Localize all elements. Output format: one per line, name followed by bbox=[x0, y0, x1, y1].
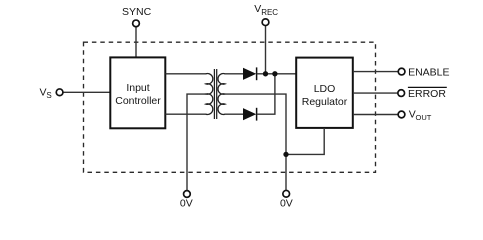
wire VREC drop bbox=[265, 25, 267, 74]
wire primary bottom bbox=[166, 113, 207, 115]
wire D2 cathode up to rail bbox=[257, 74, 275, 114]
transformer T1 primary winding bbox=[206, 74, 213, 115]
wire secondary top to diode D1 bbox=[224, 73, 243, 75]
transformer T1 secondary winding bbox=[218, 74, 225, 115]
diode D2 bbox=[243, 108, 257, 121]
svg-text:0V: 0V bbox=[280, 197, 293, 209]
svg-text:REC: REC bbox=[261, 8, 278, 17]
label Vs bbox=[40, 86, 52, 100]
wire primary top bbox=[166, 73, 207, 75]
label VOUT bbox=[409, 108, 432, 121]
svg-text:Controller: Controller bbox=[115, 95, 161, 107]
svg-text:SYNC: SYNC bbox=[122, 6, 152, 18]
wire ERROR bbox=[353, 92, 398, 94]
diode D1 bbox=[243, 67, 257, 80]
wire primary center tap to 0V bbox=[187, 94, 206, 191]
block U2 LDO Regulator bbox=[296, 58, 353, 128]
svg-text:Regulator: Regulator bbox=[302, 96, 348, 108]
label VREC bbox=[254, 3, 278, 17]
svg-text:V: V bbox=[254, 3, 261, 15]
wire LDO ground return bbox=[286, 128, 324, 154]
transformer T1 core bbox=[214, 69, 216, 119]
svg-text:LDO: LDO bbox=[314, 83, 336, 95]
terminal ENABLE bbox=[398, 68, 405, 75]
svg-text:S: S bbox=[46, 91, 51, 100]
wire ENABLE bbox=[353, 71, 399, 73]
junction rail/D2 bbox=[272, 71, 277, 76]
svg-text:0V: 0V bbox=[180, 197, 193, 209]
wire rectified rail to LDO bbox=[257, 73, 296, 75]
terminal VREC bbox=[262, 19, 269, 26]
terminal ERROR bbox=[398, 90, 405, 97]
svg-text:OUT: OUT bbox=[416, 113, 432, 122]
wire secondary bottom to diode D2 bbox=[224, 113, 243, 115]
junction rail/VREC bbox=[263, 71, 268, 76]
svg-text:Input: Input bbox=[126, 82, 149, 94]
wire secondary center tap to 0V bbox=[225, 94, 286, 190]
svg-text:ERROR: ERROR bbox=[408, 88, 446, 100]
svg-text:ENABLE: ENABLE bbox=[408, 67, 449, 79]
junction ground/0V bbox=[283, 152, 288, 157]
module outline (dashed) bbox=[84, 42, 376, 172]
block U1 Input Controller bbox=[110, 57, 165, 128]
terminal 0V secondary bbox=[283, 190, 290, 197]
terminal Vs bbox=[56, 89, 63, 96]
wire Vs input bbox=[62, 91, 110, 93]
label ERROR (active low) bbox=[408, 87, 447, 100]
wire VOUT bbox=[353, 114, 399, 116]
terminal VOUT bbox=[398, 111, 405, 118]
terminal 0V primary bbox=[184, 191, 191, 198]
wire SYNC bbox=[135, 27, 137, 58]
terminal SYNC bbox=[133, 20, 140, 27]
